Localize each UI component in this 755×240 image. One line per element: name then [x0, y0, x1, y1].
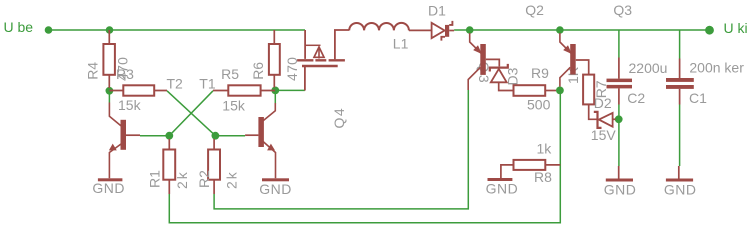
zener diode D2 — [594, 112, 616, 128]
svg-text:R4: R4 — [85, 62, 101, 80]
node R4 bottom junction — [106, 87, 114, 95]
wire cross T2 to node B — [167, 91, 215, 136]
diode D1 — [409, 21, 454, 41]
svg-text:GND: GND — [486, 181, 519, 197]
zener diode D3 — [490, 64, 514, 91]
ground T1 — [262, 178, 289, 181]
wire T2 base — [140, 135, 169, 137]
inductor L1 — [349, 23, 409, 31]
resistor R2 — [208, 139, 220, 194]
capacitor C2 — [607, 79, 633, 89]
svg-text:C1: C1 — [689, 90, 707, 106]
ground C1 — [678, 166, 680, 179]
wire node B to T1 base — [215, 135, 245, 137]
resistor R4 — [103, 30, 115, 88]
svg-text:D1: D1 — [428, 3, 446, 19]
svg-text:R2: R2 — [196, 170, 212, 188]
transistor T1 — [245, 103, 275, 178]
svg-text:2k: 2k — [174, 170, 190, 189]
svg-text:2200u: 2200u — [629, 60, 668, 76]
svg-text:GND: GND — [92, 180, 125, 196]
ground C2 — [618, 166, 620, 179]
resistor R1 — [163, 139, 175, 194]
node U ki — [705, 26, 714, 35]
node D2 output — [615, 115, 623, 123]
wire cross T1 to node A — [169, 91, 213, 136]
svg-text:R8: R8 — [534, 169, 552, 185]
svg-text:2k: 2k — [224, 170, 240, 189]
node R4 top — [106, 26, 114, 34]
ground T2 — [98, 178, 123, 181]
svg-text:R9: R9 — [531, 65, 549, 81]
wire node down to T2 collector — [108, 91, 110, 103]
node R6 bottom junction — [271, 87, 279, 95]
node U be — [45, 26, 53, 34]
svg-text:R5: R5 — [221, 66, 239, 82]
resistor R6 — [269, 30, 280, 88]
resistor R3 — [109, 85, 167, 95]
node A T2 base — [165, 132, 173, 140]
wire C2 top drop — [618, 30, 620, 58]
wire node down to T1 collector — [274, 90, 276, 103]
svg-text:GND: GND — [664, 181, 697, 197]
svg-text:Q2: Q2 — [525, 2, 544, 18]
wire C2 bottom to GND — [618, 105, 620, 167]
svg-text:R3: R3 — [116, 66, 134, 82]
wire C1 top drop — [679, 30, 681, 59]
node Q2 collector — [556, 87, 564, 95]
svg-text:U ki: U ki — [724, 20, 748, 36]
ground R8 — [488, 178, 513, 181]
svg-text:C2: C2 — [627, 90, 645, 106]
svg-text:Q3: Q3 — [613, 2, 632, 18]
svg-text:1k: 1k — [537, 140, 553, 156]
svg-text:200n ker: 200n ker — [689, 60, 744, 76]
resistor R9 — [514, 85, 557, 96]
resistor R8 — [501, 160, 560, 178]
svg-text:15k: 15k — [222, 98, 246, 114]
svg-text:D3: D3 — [505, 67, 521, 85]
svg-text:GND: GND — [604, 181, 637, 197]
wire R2 feedback — [214, 90, 468, 209]
svg-text:D2: D2 — [594, 95, 612, 111]
wire C1 bottom to GND — [679, 105, 681, 167]
wire output rail — [454, 29, 709, 31]
svg-text:R1: R1 — [147, 170, 163, 188]
wire U be rail — [49, 29, 306, 31]
resistor R7 — [583, 75, 597, 120]
svg-text:15V: 15V — [591, 127, 617, 143]
node Q2 emitter rail — [556, 26, 564, 34]
node Q3 emitter rail — [466, 26, 474, 34]
wire R1 feedback — [169, 93, 560, 223]
svg-text:500: 500 — [527, 97, 551, 113]
svg-text:L1: L1 — [393, 36, 409, 52]
svg-text:T2: T2 — [167, 76, 184, 92]
svg-text:Q4: Q4 — [331, 107, 347, 129]
capacitor C1 — [666, 78, 694, 89]
svg-text:U be: U be — [4, 19, 34, 35]
resistor R5 — [213, 85, 275, 95]
mosfet Q4 — [297, 30, 349, 91]
transistor T2 — [109, 103, 140, 179]
svg-text:GND: GND — [259, 181, 292, 197]
node B T1 base — [212, 132, 220, 140]
svg-text:R6: R6 — [250, 62, 266, 80]
wire node to gate — [275, 89, 305, 91]
svg-text:15k: 15k — [118, 97, 142, 113]
svg-text:T1: T1 — [199, 76, 216, 92]
